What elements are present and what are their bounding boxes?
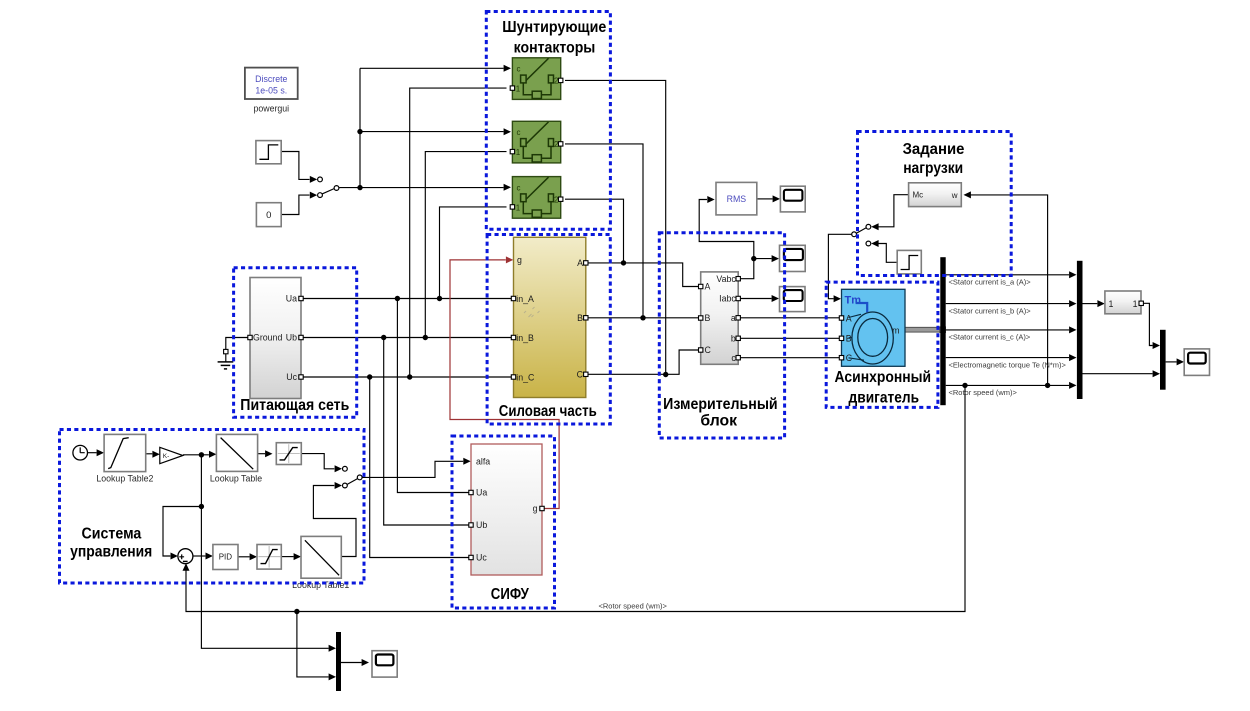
wire: switch SW1 output to control bus vertical: [339, 187, 360, 189]
wire: Lookup Table1 output to control switch bottom input: [313, 482, 356, 557]
svg-text:<Stator current is_b (A)>: <Stator current is_b (A)>: [949, 306, 1032, 315]
wire: red gate signal SIFU g to rectifier g: [450, 256, 559, 508]
scope Vabc: [780, 245, 806, 271]
wire: Ua sample down to SIFU Ua: [397, 299, 469, 493]
wire: sum output to PID: [193, 553, 213, 560]
manual switch SW-load: [852, 224, 871, 246]
node: junction B1 output on C line: [663, 372, 668, 377]
svg-text:m: m: [892, 326, 899, 336]
wire: rectifier C output to measurement C: [588, 350, 699, 374]
wire: control to breaker B2 port c: [360, 128, 511, 135]
svg-text:Ub: Ub: [476, 520, 487, 530]
mux bar 3: [1160, 330, 1166, 390]
load step block: [897, 250, 921, 274]
wire: measurement Iabc to scope I: [740, 295, 779, 302]
SIFU block: [469, 444, 544, 575]
wire: Uc sample down to SIFU Uc: [370, 377, 469, 558]
thyristor rectifier block (power section): [511, 237, 588, 397]
Lookup Table1 block: [292, 536, 349, 590]
wire: phase B line to breaker B2 port 1: [425, 152, 506, 338]
node: junction breaker B2 on Ub line: [423, 335, 428, 340]
induction motor block: [839, 289, 905, 366]
svg-text:Lookup Table: Lookup Table: [210, 474, 262, 484]
svg-text:Силовая часть: Силовая часть: [499, 403, 597, 420]
svg-text:Шунтирующие: Шунтирующие: [502, 19, 606, 36]
svg-text:Асинхронный: Асинхронный: [835, 369, 932, 386]
wire: load switch output to motor Tm: [828, 234, 851, 302]
wire: control switch output to SIFU alfa: [362, 458, 470, 478]
svg-text:in_C: in_C: [516, 372, 535, 382]
svg-text:СИФУ: СИФУ: [491, 586, 529, 603]
wire: Mc output to load switch upper input: [871, 195, 908, 231]
wire: phase A line to breaker B1 port 1: [410, 88, 507, 377]
gain block K-: [160, 447, 183, 463]
svg-text:1: 1: [516, 203, 521, 212]
breaker B2: [510, 121, 563, 163]
wire: control to breaker B1 port c: [360, 65, 511, 72]
node: junction B2 output on B line: [640, 315, 645, 320]
svg-text:powergui: powergui: [253, 104, 289, 114]
scope bottom: [372, 651, 397, 677]
wire: measurement a to motor A: [740, 317, 839, 319]
wire: bus signal rotor speed: [946, 382, 1077, 389]
svg-text:b: b: [731, 334, 736, 344]
wire: Lookup Table to saturation: [258, 450, 273, 457]
annotation box: supply network: [234, 268, 357, 417]
powergui block: [245, 68, 298, 114]
wire: mux3 to scope right: [1166, 358, 1184, 365]
node: speed reference tap: [199, 504, 204, 509]
scope Iabc: [780, 287, 806, 312]
svg-text:c: c: [517, 183, 521, 192]
wire: feedback tap down to mux input 2: [297, 612, 336, 681]
clock block: [73, 445, 88, 460]
svg-text:C: C: [577, 370, 584, 380]
svg-text:Измерительный: Измерительный: [663, 396, 778, 413]
annotation box: measurement block: [659, 233, 784, 438]
svg-text:Ground: Ground: [253, 333, 282, 343]
svg-text:<Rotor speed (wm)>: <Rotor speed (wm)>: [599, 602, 668, 611]
svg-text:A: A: [705, 282, 711, 292]
node: junction breaker B1 on Uc line: [407, 374, 412, 379]
wire: rotor speed long feedback to sum block: [183, 385, 966, 611]
node: feedback tap to scope mux: [294, 609, 299, 614]
wire: control bus vertical: [359, 68, 361, 187]
load torque source block Mc: [909, 183, 962, 207]
PID block: [213, 545, 238, 570]
svg-text:0: 0: [266, 210, 271, 221]
annotation box: induction motor: [826, 282, 938, 407]
node: Ub tap to SIFU: [381, 335, 386, 340]
node: control bus junction bottom: [357, 185, 362, 190]
wire: measurement Vabc to RMS input: [699, 196, 754, 279]
svg-text:<Stator current is_c (A)>: <Stator current is_c (A)>: [949, 333, 1031, 342]
svg-text:Система: Система: [82, 525, 142, 542]
svg-text:Lookup Table2: Lookup Table2: [96, 474, 153, 484]
wire: step1 output to manual switch top input: [281, 152, 317, 183]
svg-text:c: c: [517, 65, 521, 74]
wire: phase line to breaker B3 port 1: [440, 207, 507, 299]
svg-text:управления: управления: [70, 544, 152, 561]
node: junction breaker B3 on Ua line: [437, 296, 442, 301]
svg-text:1: 1: [1109, 299, 1114, 309]
annotation box: shunting contactors: [486, 12, 610, 230]
svg-text:B: B: [577, 313, 583, 323]
node: control bus junction middle: [357, 129, 362, 134]
wire: motor shaft m to bus: [905, 327, 946, 333]
svg-text:Vabc: Vabc: [716, 274, 736, 284]
svg-text:a: a: [731, 313, 736, 323]
Lookup Table2 block: [96, 434, 153, 483]
node: rotor speed tap to feedback: [962, 383, 967, 388]
wire: speed reference to sum input: [163, 507, 201, 560]
svg-text:in_A: in_A: [516, 294, 534, 304]
svg-text:RMS: RMS: [727, 194, 747, 204]
svg-text:Ub: Ub: [286, 333, 297, 343]
wire: tap down to mux input 1: [201, 455, 336, 652]
svg-text:C: C: [705, 345, 712, 355]
wire: load step output to load switch lower input: [871, 240, 897, 262]
svg-text:Питающая сеть: Питающая сеть: [240, 397, 349, 414]
breaker B3: [510, 177, 563, 219]
wire: bus signal electromagnetic torque: [946, 354, 1077, 361]
wire: bus signal stator current is_a: [946, 271, 1077, 278]
svg-text:g: g: [517, 255, 522, 265]
svg-text:двигатель: двигатель: [849, 390, 920, 407]
three-phase measurement block: [699, 272, 741, 364]
svg-text:<Rotor speed (wm)>: <Rotor speed (wm)>: [949, 388, 1018, 397]
wire: mux bottom to scope bottom: [341, 659, 369, 666]
svg-text:Discrete: Discrete: [255, 74, 287, 84]
wire: bus signal stator current is_b: [946, 300, 1077, 307]
svg-text:1: 1: [516, 148, 521, 157]
annotation box: control system: [60, 430, 365, 584]
svg-text:A: A: [846, 313, 852, 323]
svg-text:in_B: in_B: [516, 333, 534, 343]
wire: rectifier B output to measurement B: [588, 317, 699, 319]
wire: Lookup Table2 to gain: [146, 451, 160, 458]
node: gain output tap: [199, 452, 204, 457]
node: rotor speed tap to Mc: [1045, 383, 1050, 388]
svg-text:нагрузки: нагрузки: [903, 160, 963, 177]
scope right: [1184, 349, 1209, 376]
node: Ua tap to SIFU: [395, 296, 400, 301]
svg-text:Uc: Uc: [286, 372, 297, 382]
manual switch SW1: [318, 177, 339, 198]
bus demux bar after motor: [940, 257, 945, 405]
annotation box: load setting: [858, 132, 1012, 276]
step block Step1: [256, 141, 281, 164]
svg-text:1: 1: [516, 85, 521, 94]
wire: RMS output to scope RMS: [757, 195, 780, 202]
annotation box: power section: [487, 235, 610, 425]
mux bar bottom: [336, 632, 341, 691]
wire: mux2 lower output to mux3: [1083, 370, 1161, 377]
constant block 0: [256, 203, 281, 227]
wire: 1-1 subsystem output down to mux3: [1143, 303, 1160, 349]
svg-text:Iabc: Iabc: [719, 294, 736, 304]
wire: breaker B1 port 2 to output phase C line: [565, 80, 666, 374]
wire: supply Ua to rectifier in_A: [303, 298, 511, 300]
wire: Ub sample down to SIFU Ub: [384, 338, 469, 526]
node: Vabc tap to scope: [751, 256, 756, 261]
saturation block bottom: [257, 545, 281, 570]
svg-text:A: A: [577, 258, 583, 268]
wire: supply Uc to rectifier in_C: [303, 376, 511, 378]
svg-text:Mc: Mc: [913, 191, 924, 200]
svg-text:<Stator current is_a (A)>: <Stator current is_a (A)>: [949, 278, 1032, 287]
svg-text:w: w: [951, 191, 958, 200]
svg-text:1e-05 s.: 1e-05 s.: [255, 86, 287, 96]
svg-text:B: B: [846, 334, 852, 344]
sum block: [178, 549, 193, 564]
svg-text:Задание: Задание: [903, 141, 965, 158]
manual switch SW2 control: [343, 466, 363, 488]
wire: breaker B3 port 2 to output phase A line: [565, 199, 624, 263]
supply network block: [248, 278, 303, 399]
Lookup Table block: [210, 434, 262, 483]
svg-text:B: B: [705, 313, 711, 323]
wire: breaker B2 port 2 to output phase B line: [565, 144, 643, 318]
wire: supply Ub to rectifier in_B: [303, 337, 511, 339]
svg-text:alfa: alfa: [476, 457, 490, 467]
node: junction B3 output on A line: [621, 260, 626, 265]
wire: PID to saturation1: [238, 553, 257, 560]
wire: saturation1 to Lookup Table1: [281, 553, 301, 560]
wire: gain output to Lookup Table: [183, 451, 217, 458]
scope RMS: [780, 186, 805, 212]
svg-text:Ua: Ua: [286, 294, 297, 304]
svg-text:c: c: [517, 128, 521, 137]
svg-text:<Electromagnetic torque Te (N*: <Electromagnetic torque Te (N*m)>: [949, 360, 1067, 369]
svg-text:1: 1: [1133, 299, 1138, 309]
svg-text:PID: PID: [219, 553, 233, 562]
wire: constant 0 output to manual switch bottom input: [281, 192, 317, 215]
svg-text:Tm: Tm: [845, 294, 862, 306]
wire: measurement c to motor C: [740, 357, 839, 359]
svg-text:контакторы: контакторы: [514, 39, 596, 56]
wire: saturation to control switch top input: [301, 454, 342, 473]
breaker B1: [510, 58, 563, 100]
wire: bus signal stator current is_c: [946, 326, 1077, 333]
wire: control to breaker B3 port c: [360, 184, 511, 191]
annotation box: SIFU: [452, 436, 555, 608]
wire: ground connection from supply Ground port: [226, 338, 248, 350]
wire: Vabc tap to scope V: [754, 255, 779, 262]
ground symbol: [218, 349, 234, 369]
svg-text:g: g: [533, 504, 538, 514]
wire: measurement b to motor B: [740, 337, 839, 339]
svg-text:блок: блок: [700, 412, 737, 429]
svg-text:Uc: Uc: [476, 553, 487, 563]
wire: rectifier A output to measurement A: [588, 263, 699, 287]
mux bar 2: [1077, 261, 1083, 399]
node: Uc tap to SIFU: [367, 374, 372, 379]
RMS block: [716, 182, 757, 215]
wire: mux2 to 1-1 subsystem: [1083, 300, 1105, 307]
svg-text:Ua: Ua: [476, 488, 487, 498]
wire: clock to Lookup Table2: [88, 449, 105, 456]
svg-text:K-: K-: [163, 453, 170, 460]
wire: rotor speed feedback up to Mc w input: [964, 191, 1048, 385]
subsystem block 1-1: [1105, 291, 1144, 314]
saturation block top: [276, 443, 301, 465]
